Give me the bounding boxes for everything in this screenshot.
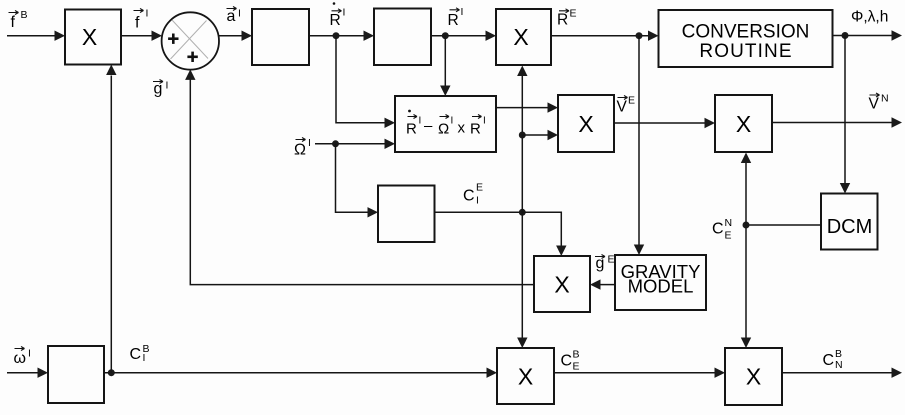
svg-text:R: R	[448, 12, 459, 29]
computation box formula	[406, 110, 486, 138]
multiplier X2 (R^I to R^E)	[496, 9, 551, 65]
svg-text:DCM: DCM	[827, 216, 873, 238]
integrator box 1	[252, 9, 309, 65]
svg-text:Ω: Ω	[438, 120, 449, 137]
wire Phi branch to DCM	[844, 36, 846, 184]
wire f^B input	[7, 35, 55, 37]
label Omega^I	[294, 137, 311, 159]
svg-text:X: X	[736, 111, 751, 137]
multiplier X7 (C_N^B)	[725, 348, 782, 405]
label g^E	[595, 254, 615, 273]
label R^I	[448, 6, 464, 29]
wire C_E^N from DCM	[746, 224, 821, 226]
svg-text:I: I	[461, 6, 464, 18]
wire a^I	[219, 35, 242, 37]
wire R^E branch to gravity model	[638, 36, 640, 245]
wire Rdot branch to computation box	[336, 36, 385, 123]
svg-text:X: X	[746, 364, 761, 390]
label C_N^B	[823, 348, 843, 371]
svg-text:V: V	[617, 99, 628, 116]
label C_E^N	[712, 217, 732, 242]
svg-text:R: R	[406, 120, 417, 137]
svg-text:E: E	[725, 230, 732, 242]
svg-text:X: X	[518, 364, 533, 390]
wire C_I^E output	[434, 211, 522, 213]
svg-text:R: R	[557, 11, 568, 28]
svg-text:I: I	[476, 194, 479, 206]
wire g^I feedback to summing junction	[190, 80, 534, 285]
svg-text:ω: ω	[14, 350, 27, 367]
svg-text:B: B	[573, 349, 580, 361]
gravity model box	[615, 255, 706, 310]
wire computation output to X3	[496, 107, 548, 109]
svg-text:Ω: Ω	[294, 142, 306, 159]
node R^I junction	[442, 32, 449, 39]
svg-text:X: X	[513, 24, 528, 50]
svg-text:Φ,λ,h: Φ,λ,h	[851, 9, 888, 26]
wire Omega^I input	[315, 143, 385, 145]
wire C_I^E branch to X3	[522, 134, 548, 136]
computation box Rdot - Omega x R	[395, 96, 496, 152]
wire Phi,lambda,h output	[833, 35, 893, 37]
multiplier X6 (C_E^B)	[497, 348, 554, 404]
svg-text:a: a	[227, 8, 236, 25]
svg-text:N: N	[725, 217, 733, 229]
wire R^I branch down to computation box	[444, 36, 446, 86]
svg-text:N: N	[881, 93, 889, 105]
svg-text:C: C	[561, 353, 573, 370]
svg-text:C: C	[823, 352, 835, 369]
label C_I^B	[130, 343, 150, 364]
label V^E	[617, 95, 636, 116]
node C_I^E to X3 junction	[519, 132, 526, 139]
multiplier X3 (V^E)	[558, 95, 614, 152]
label a^I	[227, 7, 241, 26]
summing junction	[162, 12, 219, 69]
wire V^N output	[772, 122, 892, 124]
wire R^E	[551, 35, 649, 37]
node R^E junction	[636, 32, 643, 39]
integrator box 2	[374, 9, 431, 66]
svg-text:f: f	[11, 14, 16, 31]
svg-text:x: x	[458, 119, 466, 136]
X glyphs in multiplier boxes	[82, 24, 761, 390]
label Rdot^I	[330, 2, 346, 29]
svg-text:X: X	[82, 24, 97, 50]
wire C_I^E vertical distribution	[521, 76, 523, 339]
label C_I^E	[463, 182, 483, 207]
svg-text:I: I	[28, 348, 31, 360]
svg-text:C: C	[463, 188, 475, 205]
svg-text:R: R	[330, 12, 341, 29]
label f^I	[134, 8, 149, 32]
wire C_I^E branch to gravity multiplier	[522, 212, 561, 246]
node C_I^B junction	[108, 369, 115, 376]
DCM box	[821, 194, 878, 250]
wire omega^I input	[7, 372, 38, 374]
integrator box C_I^B	[48, 346, 104, 403]
wire C_N^B output	[782, 372, 892, 374]
svg-text:X: X	[554, 272, 569, 298]
multiplier X1 (f body-to-inertial)	[65, 10, 121, 65]
label V^N	[869, 93, 889, 113]
svg-text:E: E	[628, 95, 635, 107]
svg-text:E: E	[570, 8, 577, 20]
svg-text:C: C	[130, 346, 142, 363]
svg-text:I: I	[308, 137, 311, 149]
svg-text:E: E	[476, 182, 483, 194]
svg-text:I: I	[143, 352, 146, 364]
wire Omega branch to C_I^E integrator	[336, 144, 369, 213]
box texts	[621, 22, 810, 297]
wire V^E	[614, 122, 705, 124]
svg-text:I: I	[419, 116, 422, 127]
svg-text:R: R	[470, 120, 481, 137]
wire g^E	[600, 284, 615, 286]
svg-text:CONVERSION: CONVERSION	[682, 22, 810, 43]
wire R^I	[431, 35, 486, 37]
svg-text:B: B	[835, 348, 842, 360]
label omega^I	[14, 347, 31, 368]
svg-text:I: I	[343, 7, 346, 19]
multiplier X5 (gravity to inertial)	[534, 256, 590, 312]
svg-text:I: I	[238, 8, 241, 20]
multiplier X4 (V^N)	[715, 95, 772, 152]
svg-text:I: I	[166, 80, 169, 92]
node C_I^E junction	[519, 209, 526, 216]
svg-text:MODEL: MODEL	[628, 276, 694, 297]
svg-text:I: I	[146, 8, 149, 20]
svg-text:f: f	[135, 15, 140, 32]
svg-text:ROUTINE: ROUTINE	[699, 41, 792, 62]
svg-text:B: B	[21, 9, 28, 21]
label f^B	[9, 9, 28, 31]
label g^I feedback	[153, 80, 168, 98]
conversion routine box	[659, 10, 833, 67]
node Rdot^I junction	[333, 32, 340, 39]
wire C_E^N vertical to X4 and X7	[745, 163, 747, 339]
svg-text:E: E	[608, 254, 615, 266]
node Omega junction	[332, 140, 339, 147]
node Phi junction	[842, 32, 849, 39]
integrator box C_I^E	[378, 186, 435, 243]
node C_E^N junction	[743, 222, 750, 229]
svg-text:V: V	[869, 96, 880, 113]
label R^E	[557, 8, 577, 29]
svg-text:N: N	[835, 359, 843, 371]
label C_E^B	[561, 349, 580, 373]
svg-text:C: C	[712, 221, 724, 238]
svg-text:–: –	[424, 118, 433, 135]
wire C_I^B feedback to X1	[110, 76, 112, 373]
wire C_I^B to X6	[104, 372, 487, 374]
wire Rdot^I	[309, 35, 364, 37]
svg-text:I: I	[483, 116, 486, 127]
svg-text:I: I	[451, 116, 454, 127]
wire C_E^B	[554, 372, 715, 374]
svg-text:X: X	[578, 111, 593, 137]
wire f^I	[121, 35, 152, 37]
svg-text:E: E	[573, 361, 580, 373]
